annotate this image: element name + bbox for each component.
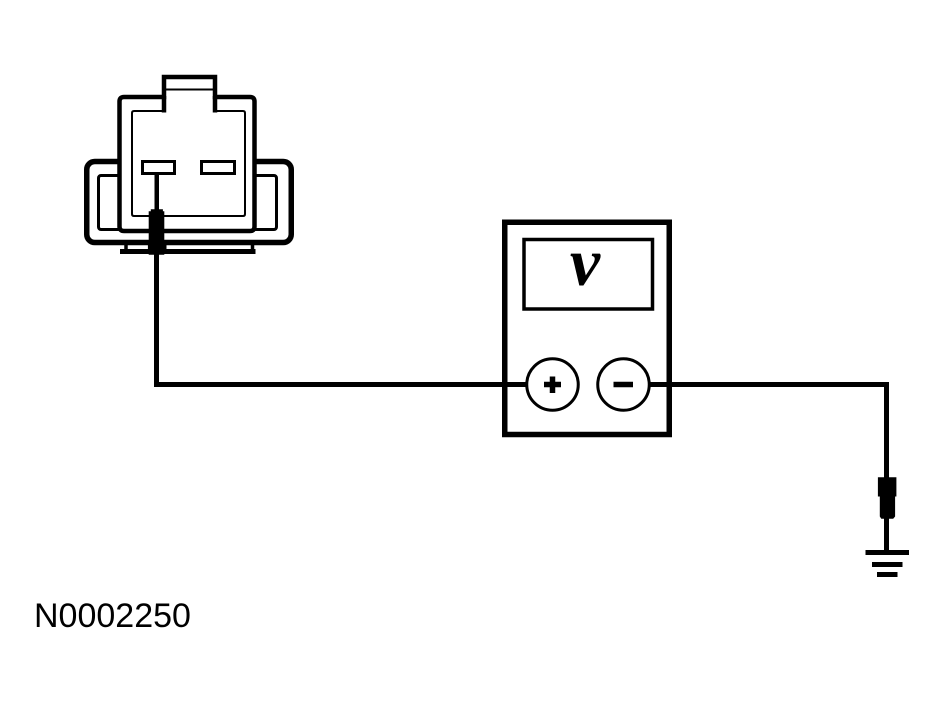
probe stem into pin cavity 1 <box>155 174 160 212</box>
minus sign <box>614 382 634 388</box>
connector mounting wing inner wall <box>99 176 277 230</box>
pin cavity 2 (right) <box>202 162 235 174</box>
voltmeter positive terminal <box>527 359 579 411</box>
wire from pin 1 to voltmeter positive terminal <box>157 250 553 385</box>
svg-text:N0002250: N0002250 <box>34 597 191 635</box>
plus sign <box>544 377 561 394</box>
connector bottom tab <box>120 243 256 252</box>
pin cavity 1 (left) <box>143 162 175 174</box>
wire from voltmeter negative terminal to ground probe <box>614 385 887 479</box>
wire from ground probe to ground <box>884 515 889 553</box>
svg-text:v: v <box>570 224 601 300</box>
top tab inner line <box>163 89 217 91</box>
ground symbol <box>866 553 910 575</box>
connector body outer shell with top tab <box>120 77 255 231</box>
connector mounting wing outer shell <box>87 162 292 243</box>
voltmeter negative terminal <box>598 359 650 411</box>
voltmeter body <box>505 222 670 434</box>
voltmeter display window <box>524 240 653 310</box>
ground probe tip <box>878 477 897 519</box>
probe tip at pin 1 <box>149 209 165 255</box>
connector body inner wall <box>132 111 245 216</box>
top tab wall extensions <box>164 96 215 113</box>
